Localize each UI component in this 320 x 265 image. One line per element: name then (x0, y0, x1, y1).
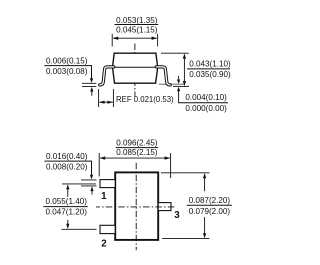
svg-text:0.000(0.00): 0.000(0.00) (185, 104, 227, 113)
svg-text:0.008(0.20): 0.008(0.20) (46, 162, 88, 171)
lead right (side view) (156, 67, 170, 85)
lead thickness extension lines (82, 83, 96, 86)
REF arrows (99, 101, 113, 103)
parting line (113, 66, 158, 68)
standoff upper arrow (178, 76, 180, 80)
body length top extension line (161, 172, 210, 174)
lead thickness lower arrow (91, 91, 93, 95)
svg-text:REF 0.021(0.53): REF 0.021(0.53) (116, 95, 174, 104)
svg-text:0.087(2.20): 0.087(2.20) (189, 196, 231, 205)
pin width fraction bar + leader (44, 161, 91, 176)
svg-text:0.053(1.35): 0.053(1.35) (116, 16, 158, 25)
svg-text:0.003(0.08): 0.003(0.08) (46, 67, 88, 76)
svg-text:0.047(1.20): 0.047(1.20) (46, 208, 88, 217)
fraction bar with leader corner (44, 66, 91, 80)
svg-text:1: 1 (101, 191, 107, 202)
total width dimension line (100, 157, 170, 159)
svg-text:0.035(0.90): 0.035(0.90) (189, 70, 231, 79)
standoff lower arrow + leader to text bar (178, 90, 180, 102)
total width extension lines (99, 153, 170, 178)
pitch fraction bar (43, 206, 87, 208)
lead left (side view) (100, 67, 114, 85)
pitch upper arrow (67, 189, 69, 197)
svg-text:0.016(0.40): 0.016(0.40) (46, 152, 88, 161)
svg-text:0.043(1.10): 0.043(1.10) (189, 60, 231, 69)
svg-text:0.055(1.40): 0.055(1.40) (46, 197, 88, 206)
package body side view (113, 53, 158, 83)
seating plane ext line B (173, 85, 189, 87)
svg-text:0.085(2.15): 0.085(2.15) (116, 148, 158, 157)
standoff fraction bar (178, 102, 228, 104)
body length bottom extension line (162, 238, 210, 240)
height dim top extension line (161, 52, 189, 54)
svg-text:0.006(0.15): 0.006(0.15) (46, 56, 88, 65)
bottom view horizontal center line (96, 206, 175, 208)
pin 1 (100, 180, 115, 188)
svg-text:0.045(1.15): 0.045(1.15) (116, 26, 158, 35)
total width fraction bar (116, 147, 158, 149)
body bottom plane ext line A (159, 83, 184, 85)
height dimension line with arrows (183, 58, 185, 83)
height fraction bar (187, 68, 230, 70)
pitch extension lines (62, 184, 97, 229)
pin width lower arrow (91, 191, 93, 195)
svg-text:0.079(2.00): 0.079(2.00) (189, 207, 231, 216)
body length fraction bar (187, 204, 232, 206)
bottom view vertical center line (135, 163, 137, 250)
svg-text:0.004(0.10): 0.004(0.10) (185, 93, 227, 102)
svg-text:2: 2 (101, 239, 107, 250)
pin width extension lines (81, 180, 97, 186)
pin 3 (158, 203, 171, 211)
pin 2 (100, 225, 115, 233)
side view center line (134, 44, 136, 98)
svg-text:0.096(2.45): 0.096(2.45) (116, 139, 158, 148)
body rect (bottom view) (115, 172, 158, 240)
body width extension lines (112, 34, 157, 47)
REF dim extension lines (99, 89, 114, 107)
fraction bar (115, 24, 159, 26)
body length dimension line with arrows (204, 178, 206, 234)
svg-text:3: 3 (174, 210, 180, 221)
body width dimension line (113, 37, 157, 39)
pitch lower arrow (67, 220, 69, 225)
